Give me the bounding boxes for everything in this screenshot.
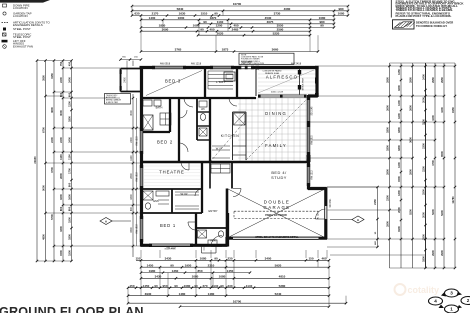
svg-text:1800: 1800	[421, 256, 425, 262]
svg-text:1400: 1400	[149, 16, 156, 20]
svg-text:1450: 1450	[397, 69, 401, 75]
svg-text:12780: 12780	[451, 196, 455, 204]
svg-text:5200: 5200	[431, 209, 435, 215]
svg-text:3430: 3430	[165, 257, 172, 261]
svg-text:3550: 3550	[41, 75, 45, 81]
svg-text:9150: 9150	[451, 107, 455, 113]
svg-text:1400: 1400	[397, 100, 401, 106]
svg-text:5700: 5700	[50, 214, 54, 220]
svg-text:3400: 3400	[265, 257, 272, 261]
svg-text:1800: 1800	[397, 145, 401, 151]
svg-text:10700: 10700	[233, 299, 242, 303]
svg-text:2600: 2600	[408, 105, 412, 111]
svg-text:W.I.P: W.I.P	[216, 147, 223, 151]
svg-text:3430: 3430	[155, 275, 162, 279]
svg-text:980: 980	[338, 7, 343, 11]
svg-text:2900: 2900	[408, 169, 412, 175]
svg-text:2300: 2300	[385, 195, 389, 201]
svg-text:2900: 2900	[431, 250, 435, 256]
svg-text:400: 400	[209, 27, 214, 31]
svg-text:ENS: ENS	[153, 199, 159, 203]
svg-text:1500: 1500	[67, 217, 71, 223]
svg-text:230: 230	[227, 284, 232, 288]
svg-text:DOUBLE: DOUBLE	[264, 200, 290, 205]
svg-text:4400: 4400	[440, 107, 444, 113]
svg-text:THEATRE: THEATRE	[159, 170, 185, 175]
svg-text:AW 1815: AW 1815	[311, 135, 314, 145]
svg-text:BRICK PIER: BRICK PIER	[303, 77, 305, 90]
svg-text:6500: 6500	[440, 151, 444, 157]
svg-text:1500: 1500	[67, 250, 71, 256]
svg-text:450: 450	[67, 61, 71, 66]
svg-text:GROUND FLOOR PLAN: GROUND FLOOR PLAN	[0, 305, 144, 313]
svg-text:1080: 1080	[219, 275, 226, 279]
svg-text:850: 850	[197, 269, 202, 273]
svg-text:AW 1215: AW 1215	[136, 136, 139, 146]
svg-text:2900: 2900	[385, 169, 389, 175]
svg-text:KITCHEN: KITCHEN	[221, 134, 239, 138]
svg-text:150: 150	[135, 257, 140, 261]
svg-text:460: 460	[321, 257, 326, 261]
svg-text:1510: 1510	[201, 12, 208, 16]
svg-text:90: 90	[200, 27, 204, 31]
svg-text:5920: 5920	[275, 263, 282, 267]
svg-text:800: 800	[130, 206, 133, 211]
svg-text:2600: 2600	[59, 173, 63, 179]
svg-text:90: 90	[203, 20, 207, 24]
svg-text:3300: 3300	[59, 226, 63, 232]
svg-text:3000: 3000	[130, 110, 133, 116]
svg-text:2900: 2900	[440, 250, 444, 256]
svg-text:GARAGE: GARAGE	[263, 205, 290, 210]
svg-text:3600: 3600	[50, 107, 54, 113]
svg-text:1800: 1800	[67, 116, 71, 122]
svg-text:600: 600	[67, 92, 71, 97]
svg-text:2465: 2465	[232, 27, 239, 31]
svg-text:AW 1218: AW 1218	[191, 63, 202, 66]
svg-text:1900: 1900	[397, 226, 401, 232]
svg-text:1600: 1600	[178, 16, 185, 20]
svg-text:1200: 1200	[397, 113, 401, 119]
svg-text:630: 630	[134, 12, 139, 16]
svg-text:2400: 2400	[130, 137, 133, 143]
svg-text:TO CORNICE FIXING HT.: TO CORNICE FIXING HT.	[416, 24, 448, 28]
svg-text:1450: 1450	[143, 284, 150, 288]
svg-text:10700: 10700	[233, 2, 242, 6]
svg-text:3730: 3730	[274, 12, 281, 16]
svg-text:5200: 5200	[408, 209, 412, 215]
svg-text:2600: 2600	[130, 173, 133, 179]
svg-text:BED 3: BED 3	[165, 79, 181, 84]
svg-text:2000: 2000	[397, 207, 401, 213]
svg-text:2400: 2400	[421, 74, 425, 80]
svg-text:1800: 1800	[397, 127, 401, 133]
svg-text:BED 2: BED 2	[157, 140, 173, 145]
svg-text:REBATE SLAB: REBATE SLAB	[265, 72, 280, 75]
svg-text:3765: 3765	[175, 48, 182, 52]
svg-text:LOCATION: LOCATION	[13, 6, 28, 10]
svg-text:90: 90	[170, 263, 174, 267]
svg-text:2950: 2950	[408, 77, 412, 83]
svg-text:90: 90	[154, 284, 158, 288]
svg-text:1600: 1600	[59, 194, 63, 200]
svg-text:90: 90	[214, 257, 218, 261]
svg-text:900: 900	[67, 182, 71, 187]
svg-text:1200: 1200	[216, 24, 223, 28]
svg-text:21930: 21930	[33, 156, 37, 164]
svg-text:DENOTES BULKHEAD OVER: DENOTES BULKHEAD OVER	[416, 20, 453, 24]
svg-text:AW 1818: AW 1818	[136, 172, 139, 182]
svg-text:SD 0821: SD 0821	[330, 198, 332, 208]
svg-text:2950: 2950	[385, 77, 389, 83]
svg-text:1140: 1140	[246, 284, 253, 288]
svg-text:ALFRESCO: ALFRESCO	[266, 75, 298, 80]
svg-text:1080: 1080	[192, 275, 199, 279]
svg-text:1400: 1400	[397, 162, 401, 168]
svg-text:1980: 1980	[149, 269, 156, 273]
svg-text:AW 1818: AW 1818	[136, 224, 139, 234]
svg-text:FAMILY: FAMILY	[265, 143, 287, 148]
svg-text:4400: 4400	[431, 115, 435, 121]
svg-text:PANEL LIFT DOOR: PANEL LIFT DOOR	[265, 214, 287, 217]
svg-text:1600: 1600	[130, 194, 133, 200]
svg-text:4080: 4080	[284, 7, 291, 11]
svg-text:BED 1: BED 1	[160, 223, 176, 228]
svg-text:3075: 3075	[267, 20, 274, 24]
svg-text:230: 230	[227, 257, 232, 261]
svg-text:150: 150	[129, 284, 134, 288]
svg-text:1080: 1080	[338, 12, 345, 16]
svg-text:1870: 1870	[210, 16, 217, 20]
svg-text:1480: 1480	[179, 292, 186, 296]
svg-text:AW 0918: AW 0918	[160, 63, 171, 66]
svg-text:2400: 2400	[67, 137, 71, 143]
svg-text:1360: 1360	[172, 269, 179, 273]
svg-text:1140: 1140	[212, 284, 219, 288]
svg-text:750: 750	[59, 61, 63, 66]
svg-text:5000: 5000	[41, 185, 45, 191]
svg-text:2400: 2400	[59, 137, 63, 143]
svg-text:2600: 2600	[385, 105, 389, 111]
svg-text:& BRICK PIER: & BRICK PIER	[106, 102, 119, 104]
svg-text:1500: 1500	[397, 176, 401, 182]
svg-text:5280: 5280	[279, 284, 286, 288]
svg-text:1800: 1800	[67, 234, 71, 240]
svg-text:2200: 2200	[421, 166, 425, 172]
svg-text:1100: 1100	[67, 154, 71, 160]
svg-text:AW 1212: AW 1212	[311, 170, 314, 180]
svg-text:3000: 3000	[59, 110, 63, 116]
svg-text:1480: 1480	[208, 292, 215, 296]
svg-text:2000: 2000	[421, 212, 425, 218]
svg-text:1950: 1950	[185, 263, 192, 267]
svg-text:SD 2145: SD 2145	[312, 106, 314, 116]
svg-text:2400: 2400	[67, 77, 71, 83]
svg-text:4810: 4810	[279, 275, 286, 279]
svg-text:4700: 4700	[431, 160, 435, 166]
svg-text:3660: 3660	[272, 48, 279, 52]
svg-text:90: 90	[320, 24, 324, 28]
svg-text:L'DRY: L'DRY	[216, 80, 226, 84]
svg-text:1450: 1450	[227, 269, 234, 273]
svg-text:2950: 2950	[440, 77, 444, 83]
svg-text:2500: 2500	[421, 189, 425, 195]
svg-text:3300: 3300	[130, 227, 133, 233]
svg-text:2900: 2900	[385, 221, 389, 227]
svg-text:1450: 1450	[147, 263, 154, 267]
svg-text:LOCATION: LOCATION	[13, 14, 28, 18]
svg-text:3090: 3090	[162, 27, 169, 31]
svg-text:1800: 1800	[385, 145, 389, 151]
svg-text:950: 950	[162, 284, 167, 288]
svg-text:1200: 1200	[67, 101, 71, 107]
svg-text:ENTRY: ENTRY	[208, 209, 217, 213]
svg-text:WC: WC	[201, 109, 205, 111]
svg-text:cotality: cotality	[408, 285, 440, 295]
svg-text:3700: 3700	[50, 167, 54, 173]
svg-text:2: 2	[467, 298, 470, 303]
svg-text:2950: 2950	[431, 77, 435, 83]
svg-text:BATH: BATH	[156, 106, 163, 110]
svg-text:STUDY: STUDY	[271, 175, 287, 180]
svg-text:1100: 1100	[59, 154, 63, 160]
svg-text:1300: 1300	[397, 190, 401, 196]
svg-text:4000 x 2128: 4000 x 2128	[271, 92, 284, 94]
svg-text:2400: 2400	[50, 137, 54, 143]
svg-text:1080: 1080	[184, 284, 191, 288]
svg-text:800: 800	[59, 206, 63, 211]
svg-text:1080: 1080	[200, 257, 207, 261]
svg-text:4800: 4800	[41, 234, 45, 240]
svg-text:PRACTICAL COMPLETION: PRACTICAL COMPLETION	[241, 62, 265, 65]
svg-text:2400: 2400	[59, 77, 63, 83]
svg-text:2150: 2150	[373, 199, 377, 205]
svg-text:STEEL BEAM TO ENGINEERS DETAIL: STEEL BEAM TO ENGINEERS DETAIL	[255, 236, 299, 239]
svg-text:1600: 1600	[67, 194, 71, 200]
svg-text:2400: 2400	[124, 77, 127, 83]
svg-text:90: 90	[220, 284, 224, 288]
svg-text:EXHAUST FAN: EXHAUST FAN	[13, 45, 33, 49]
svg-text:1600: 1600	[397, 85, 401, 91]
svg-text:2020: 2020	[217, 31, 224, 35]
svg-text:1: 1	[450, 307, 453, 312]
svg-text:3930: 3930	[145, 292, 152, 296]
svg-text:PDR: PDR	[210, 240, 215, 243]
svg-text:1500: 1500	[59, 250, 63, 256]
svg-text:1700: 1700	[67, 168, 71, 174]
svg-text:2300: 2300	[421, 143, 425, 149]
svg-text:STEEL POST: STEEL POST	[13, 27, 31, 31]
svg-text:8.047 HGS: 8.047 HGS	[165, 249, 176, 251]
svg-text:270: 270	[202, 284, 207, 288]
svg-text:1100: 1100	[130, 155, 133, 161]
svg-text:AW 2418: AW 2418	[291, 63, 302, 66]
svg-text:5840: 5840	[177, 7, 184, 11]
svg-text:90: 90	[174, 284, 178, 288]
svg-text:1080: 1080	[193, 24, 200, 28]
svg-text:2000: 2000	[421, 97, 425, 103]
svg-text:4: 4	[434, 299, 437, 304]
svg-text:150: 150	[308, 257, 313, 261]
svg-text:3150: 3150	[50, 73, 54, 79]
svg-text:PLANS FOR POST TYPE & LOCATION: PLANS FOR POST TYPE & LOCATIONS.	[396, 14, 452, 18]
svg-text:W.I.R: W.I.R	[180, 192, 187, 196]
svg-text:6700: 6700	[41, 127, 45, 133]
svg-text:5200: 5200	[440, 210, 444, 216]
svg-text:1800: 1800	[385, 127, 389, 133]
svg-text:3600: 3600	[408, 137, 412, 143]
svg-text:1873: 1873	[222, 48, 229, 52]
svg-text:800: 800	[67, 206, 71, 211]
svg-text:3: 3	[450, 291, 453, 296]
svg-text:600: 600	[59, 92, 63, 97]
svg-text:5240: 5240	[275, 292, 282, 296]
svg-text:5220: 5220	[273, 31, 280, 35]
svg-text:DINING: DINING	[265, 111, 287, 116]
svg-text:2500: 2500	[421, 119, 425, 125]
